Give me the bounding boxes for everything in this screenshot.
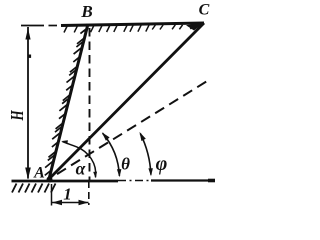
phi arc bottom arrow: [148, 168, 153, 176]
alpha arc end arrow at base: [93, 172, 97, 179]
svg-text:H: H: [8, 110, 28, 122]
junction blob at A: [47, 177, 53, 183]
wall hatching along AB (left side): [45, 29, 86, 175]
svg-text:B: B: [80, 2, 92, 21]
angle arc theta: [103, 133, 120, 176]
svg-text:A: A: [33, 165, 45, 182]
theta arc top arrow: [102, 132, 110, 140]
vertical dashed line from B down to base: [89, 28, 91, 181]
theta arc bottom arrow: [117, 169, 122, 177]
solid wedge at C junction: [186, 23, 204, 31]
angle arc phi: [140, 134, 151, 175]
dimension 1: left arrow: [52, 200, 62, 205]
ground surface line BC: [61, 23, 204, 26]
wall face AB: [49, 24, 88, 179]
dimension H: bottom arrow: [25, 168, 31, 180]
small tick on dimension line: [29, 55, 32, 58]
dimension H: vertical dimension line: [27, 27, 29, 179]
svg-text:θ: θ: [121, 155, 130, 174]
rupture plane AC: [49, 23, 204, 179]
dimension 1 at bottom: left extension line: [51, 184, 53, 206]
extension of vertical dashed line below base (dimension): [88, 181, 90, 205]
natural slope line at angle phi (dashed): [57, 81, 208, 175]
dimension H: extension tick at top (dash-dot): [21, 25, 44, 27]
svg-text:α: α: [76, 159, 86, 179]
dimension 1: right arrow: [79, 200, 89, 205]
svg-text:C: C: [199, 2, 210, 19]
svg-text:φ: φ: [156, 153, 168, 175]
alpha arc end arrow at wall: [61, 140, 68, 144]
dimension 1: dimension line: [52, 202, 89, 204]
ground surface hatching below BC: [64, 25, 194, 33]
phi arc top arrow: [140, 132, 146, 141]
base line right section: [151, 179, 215, 181]
base line (bottom horizontal): [12, 180, 119, 183]
svg-text:1: 1: [63, 185, 72, 204]
ground hatching below base at left of A: [12, 184, 56, 193]
dimension H: top arrow: [25, 28, 30, 40]
base line middle dash-dot section: [118, 180, 151, 182]
angle arc alpha (hand-drawn spiral): [63, 142, 96, 178]
